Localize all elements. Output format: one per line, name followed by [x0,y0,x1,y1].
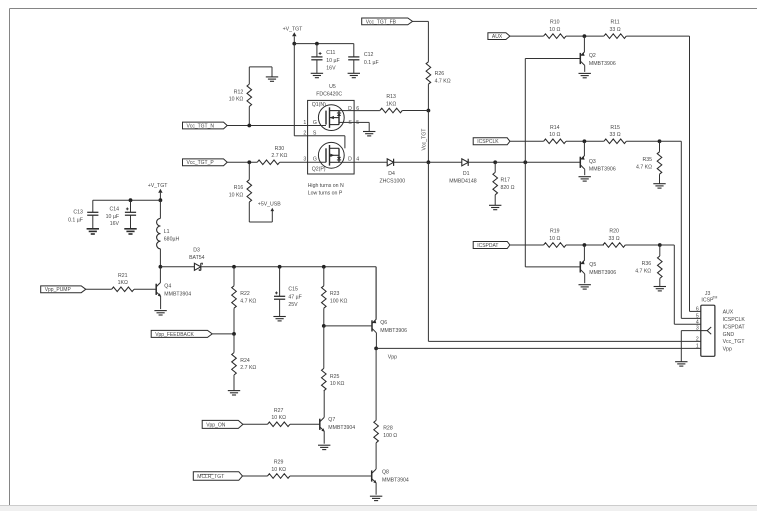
svg-text:J3: J3 [705,291,711,297]
svg-text:ZHCS1000: ZHCS1000 [379,179,405,185]
svg-text:10 KΩ: 10 KΩ [330,381,345,387]
svg-text:Q2(P): Q2(P) [312,166,326,172]
svg-text:R25: R25 [330,374,340,380]
svg-text:MMBT3904: MMBT3904 [328,425,355,431]
svg-text:AUX: AUX [492,34,503,40]
svg-text:Q3: Q3 [589,159,596,165]
svg-text:R22: R22 [240,291,250,297]
svg-text:R15: R15 [610,125,620,131]
svg-text:Vpp_PUMP: Vpp_PUMP [45,287,72,293]
svg-text:R24: R24 [240,358,250,364]
svg-text:R35: R35 [642,157,652,163]
svg-text:4.7 KΩ: 4.7 KΩ [240,298,256,304]
svg-text:1KΩ: 1KΩ [118,280,128,286]
svg-text:D: D [348,157,352,163]
svg-text:R28: R28 [383,426,393,432]
svg-text:10 KΩ: 10 KΩ [229,192,244,198]
svg-text:Q5: Q5 [589,262,596,268]
svg-text:R17: R17 [501,178,511,184]
svg-text:FDC6420C: FDC6420C [316,92,342,98]
svg-text:Vcc_TGT_N: Vcc_TGT_N [187,123,215,129]
svg-text:4.7 KΩ: 4.7 KΩ [635,269,651,275]
svg-text:R36: R36 [642,261,652,267]
svg-text:+V_TGT: +V_TGT [283,26,304,32]
svg-text:0.1 µF: 0.1 µF [364,60,379,66]
svg-text:BAT54: BAT54 [189,255,205,261]
svg-text:1KΩ: 1KΩ [386,101,396,107]
svg-text:4.7 KΩ: 4.7 KΩ [636,164,652,170]
svg-text:Vcc_TGT_P: Vcc_TGT_P [187,160,215,166]
svg-text:C12: C12 [364,52,374,58]
svg-text:U5: U5 [329,84,336,90]
svg-text:R20: R20 [609,229,619,235]
svg-text:Q4: Q4 [164,284,171,290]
svg-text:MMBT3906: MMBT3906 [589,61,616,67]
svg-text:10 KΩ: 10 KΩ [229,97,244,103]
svg-text:Vpp_FEEDBACK: Vpp_FEEDBACK [155,332,194,338]
svg-text:10 Ω: 10 Ω [549,132,560,138]
svg-text:16V: 16V [110,221,120,227]
svg-text:R12: R12 [234,89,244,95]
svg-text:MMBT3906: MMBT3906 [589,270,616,276]
svg-text:R16: R16 [234,185,244,191]
svg-text:33 Ω: 33 Ω [610,132,621,138]
svg-text:Vpp: Vpp [723,347,732,353]
svg-text:10 KΩ: 10 KΩ [271,467,286,473]
svg-text:S: S [348,120,352,126]
svg-text:Q7: Q7 [328,417,335,423]
svg-text:D1: D1 [463,171,470,177]
svg-text:MMBT3904: MMBT3904 [382,478,409,484]
svg-text:D4: D4 [388,171,395,177]
svg-text:Vcc_TGT: Vcc_TGT [723,339,746,345]
svg-text:3: 3 [303,157,306,163]
svg-text:4.7 KΩ: 4.7 KΩ [435,78,451,84]
svg-text:ICSPDAT: ICSPDAT [723,324,746,330]
svg-text:MMBT3906: MMBT3906 [589,166,616,172]
svg-text:High turns on N: High turns on N [308,183,344,189]
svg-text:Low turns on P: Low turns on P [308,190,343,196]
svg-text:2.7 KΩ: 2.7 KΩ [271,153,287,159]
svg-text:R21: R21 [118,273,128,279]
svg-text:0.1 µF: 0.1 µF [68,217,83,223]
svg-text:R14: R14 [550,125,560,131]
svg-text:G: G [313,120,317,126]
svg-text:ICSPDAT: ICSPDAT [477,243,498,249]
svg-text:10 KΩ: 10 KΩ [271,415,286,421]
svg-text:GND: GND [723,332,735,338]
svg-text:10 µF: 10 µF [106,214,119,220]
svg-text:16V: 16V [326,65,336,71]
svg-text:R10: R10 [550,20,560,26]
svg-text:680µH: 680µH [164,237,180,243]
svg-text:R11: R11 [611,20,620,26]
svg-text:R13: R13 [386,94,396,100]
svg-text:Vcc_TGT: Vcc_TGT [422,128,428,151]
svg-text:R26: R26 [435,71,445,77]
svg-text:Vcc_TGT_FB: Vcc_TGT_FB [366,19,397,25]
svg-text:ICSPCLK: ICSPCLK [723,317,746,323]
svg-text:+5V_USB: +5V_USB [258,202,281,208]
svg-text:MMBT3904: MMBT3904 [164,291,191,297]
svg-text:2: 2 [696,337,699,343]
svg-text:33 Ω: 33 Ω [610,27,621,33]
svg-text:C14: C14 [109,206,119,212]
svg-text:C11: C11 [326,50,335,56]
svg-text:MCLR_TGT: MCLR_TGT [197,474,224,480]
svg-text:R23: R23 [330,291,340,297]
svg-text:Q2: Q2 [589,53,596,59]
svg-text:2.7 KΩ: 2.7 KΩ [240,365,256,371]
svg-text:C15: C15 [288,287,298,293]
svg-text:10 Ω: 10 Ω [549,27,560,33]
svg-text:1: 1 [303,120,306,126]
svg-text:10 µF: 10 µF [326,58,339,64]
svg-text:820 Ω: 820 Ω [501,185,515,191]
svg-text:R27: R27 [274,408,284,414]
svg-text:R29: R29 [274,460,284,466]
svg-text:5: 5 [356,120,359,126]
svg-text:2: 2 [303,130,306,136]
svg-text:+V_TGT: +V_TGT [148,183,169,189]
svg-text:Vpp_ON: Vpp_ON [206,422,226,428]
svg-text:100 KΩ: 100 KΩ [330,298,348,304]
svg-text:AUX: AUX [723,310,734,316]
svg-text:C13: C13 [73,210,83,216]
svg-text:100 Ω: 100 Ω [383,433,397,439]
svg-text:D3: D3 [193,248,200,254]
svg-text:25V: 25V [288,302,298,308]
svg-text:10 Ω: 10 Ω [549,236,560,242]
svg-text:G: G [313,157,317,163]
svg-text:MMBD4148: MMBD4148 [449,179,477,185]
svg-text:MMBT3906: MMBT3906 [380,328,407,334]
svg-text:47 µF: 47 µF [288,294,301,300]
svg-text:Q8: Q8 [382,470,389,476]
svg-text:L1: L1 [164,229,170,235]
svg-text:33 Ω: 33 Ω [609,236,620,242]
svg-text:1: 1 [696,344,699,350]
svg-text:D: D [348,106,352,112]
svg-text:Vpp: Vpp [388,355,397,361]
svg-text:R30: R30 [275,146,285,152]
svg-text:Q6: Q6 [380,320,387,326]
svg-text:TM: TM [712,296,717,300]
svg-text:ICSPCLK: ICSPCLK [477,139,499,145]
svg-text:R19: R19 [550,229,560,235]
svg-text:S: S [313,130,317,136]
